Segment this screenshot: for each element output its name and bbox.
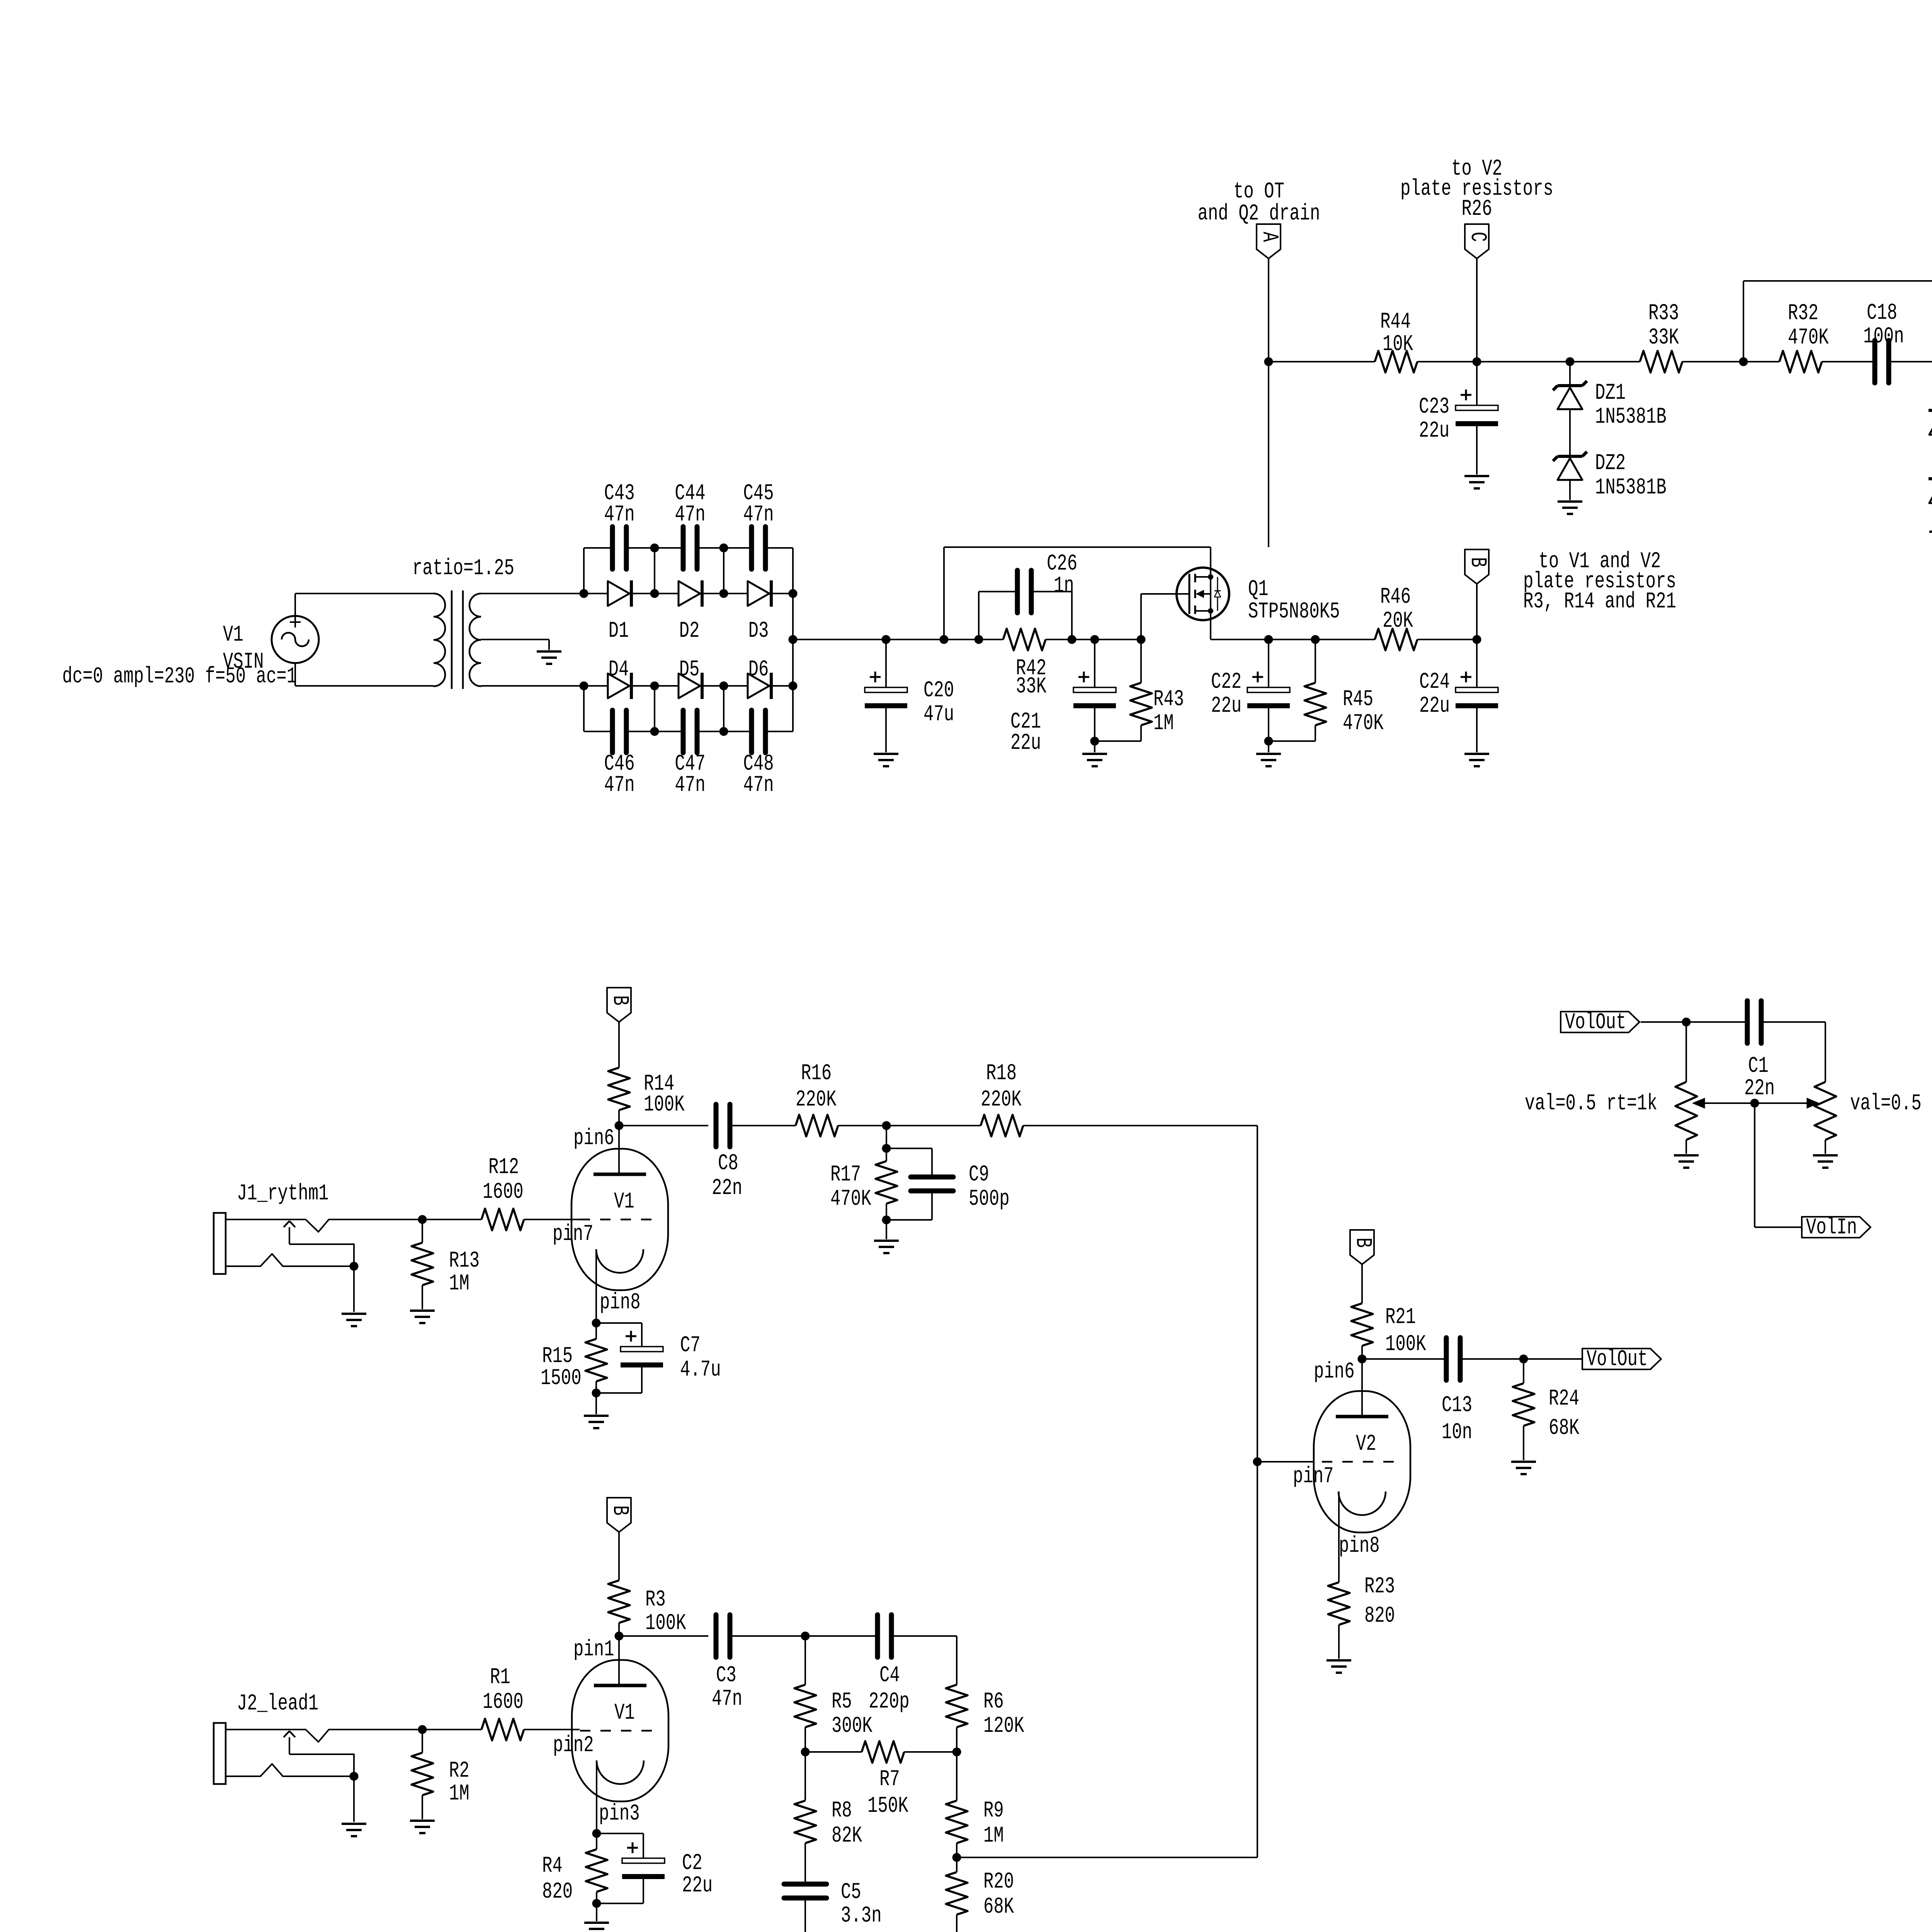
- note to V1 V2 plate resistors: [1523, 549, 1676, 614]
- resistor R44 10K: [1375, 310, 1477, 372]
- wire Q1 source: [1211, 611, 1269, 639]
- wire anode: [618, 1636, 620, 1685]
- svg-text:R16: R16: [801, 1061, 832, 1086]
- svg-text:R32: R32: [1788, 301, 1818, 326]
- svg-text:D6: D6: [748, 657, 769, 682]
- svg-text:STP5N80K5: STP5N80K5: [1248, 599, 1340, 624]
- wire: [619, 1635, 708, 1637]
- svg-text:B: B: [607, 995, 632, 1005]
- svg-text:DZ1: DZ1: [1595, 381, 1626, 406]
- svg-text:470K: 470K: [1343, 711, 1384, 736]
- ground: [1464, 754, 1489, 766]
- wire cathode: [1338, 1492, 1340, 1582]
- svg-text:D2: D2: [679, 619, 700, 644]
- wire: [1072, 639, 1095, 640]
- ground: [584, 1416, 609, 1428]
- resistor R17 470K: [830, 1148, 897, 1220]
- node junction: [801, 1632, 810, 1641]
- svg-text:pin6: pin6: [1314, 1359, 1355, 1384]
- svg-text:B: B: [1465, 557, 1490, 567]
- wire: [1743, 361, 1779, 362]
- svg-text:pin6: pin6: [573, 1126, 614, 1151]
- wire to Q1 drain: [944, 547, 1211, 577]
- capacitor C20 47u: [865, 639, 954, 752]
- node junction: [882, 1216, 891, 1240]
- zener diode DZ1 1N5381B: [1553, 362, 1667, 430]
- wire: [295, 593, 434, 594]
- svg-text:V1: V1: [614, 1701, 635, 1726]
- wire: [295, 685, 434, 687]
- ground: [1929, 532, 1932, 544]
- svg-text:R5: R5: [832, 1689, 852, 1714]
- ground: [1674, 1155, 1699, 1168]
- resistor R18 220K: [886, 1061, 1257, 1136]
- node junction: [1750, 1099, 1759, 1108]
- wire: [619, 1125, 708, 1126]
- wire: [792, 686, 794, 731]
- net label VolIn: [1802, 1215, 1871, 1240]
- svg-text:220K: 220K: [796, 1087, 837, 1112]
- capacitor C26 1n: [979, 551, 1077, 613]
- capacitor C18 100n: [1863, 301, 1932, 383]
- resistor R4 820: [542, 1833, 607, 1905]
- svg-text:1M: 1M: [1153, 711, 1174, 736]
- svg-text:47n: 47n: [604, 502, 634, 527]
- capacitor C3 47n: [712, 1615, 805, 1712]
- svg-text:val=0.5 rt=1k: val=0.5 rt=1k: [1850, 1091, 1932, 1116]
- svg-text:22u: 22u: [1419, 418, 1449, 444]
- svg-text:pin7: pin7: [553, 1222, 594, 1247]
- node junction: [418, 1725, 427, 1734]
- node junction: [1473, 357, 1481, 366]
- svg-text:R24: R24: [1549, 1386, 1579, 1412]
- wire center tap: [481, 639, 549, 650]
- svg-text:R20: R20: [983, 1869, 1014, 1895]
- svg-text:B: B: [1350, 1238, 1375, 1248]
- svg-text:22u: 22u: [682, 1873, 713, 1898]
- node junction: [650, 686, 659, 736]
- svg-text:C2: C2: [682, 1851, 702, 1876]
- resistor R14 100K: [608, 1022, 685, 1126]
- resistor R12 1600: [422, 1155, 580, 1230]
- triode V2 (mid): [1293, 1359, 1410, 1559]
- node junction: [1566, 357, 1575, 366]
- node B flag: [607, 1498, 632, 1532]
- svg-text:1N5381B: 1N5381B: [1595, 475, 1667, 500]
- svg-text:R45: R45: [1343, 687, 1373, 712]
- capacitor C1 22n: [1686, 1001, 1825, 1101]
- potentiometer val=0.5 rt=1k (left): [1525, 1022, 1697, 1154]
- svg-text:D4: D4: [609, 657, 629, 682]
- node junction: [592, 1899, 601, 1922]
- svg-text:D1: D1: [609, 619, 629, 644]
- node C flag: [1400, 156, 1553, 362]
- diode D3: [724, 580, 793, 644]
- net label VolOut: [1524, 1347, 1661, 1372]
- triode V1 (J1 stage): [553, 1126, 668, 1315]
- capacitor C46 47n: [584, 710, 655, 798]
- diode D6: [724, 657, 793, 699]
- wire: [1269, 639, 1315, 640]
- node junction: [940, 547, 949, 644]
- node junction: [615, 1632, 624, 1641]
- resistor R13 1M: [412, 1219, 480, 1309]
- svg-text:C26: C26: [1047, 551, 1077, 577]
- svg-text:220p: 220p: [869, 1689, 910, 1714]
- svg-text:22u: 22u: [1419, 694, 1450, 719]
- node junction: [592, 1319, 601, 1328]
- node junction: [1068, 592, 1077, 644]
- ground: [1511, 1462, 1536, 1474]
- wiper wire: [1692, 1098, 1819, 1109]
- capacitor C9 500p: [886, 1148, 1010, 1220]
- resistor R7 150K: [805, 1741, 957, 1819]
- node A flag: [1198, 179, 1320, 362]
- svg-text:1M: 1M: [449, 1271, 469, 1296]
- node junction: [1473, 635, 1481, 644]
- capacitor C7 4.7u: [596, 1323, 721, 1393]
- svg-text:R33: R33: [1648, 301, 1679, 326]
- node junction: [418, 1215, 427, 1224]
- capacitor C48 47n: [724, 710, 793, 798]
- svg-text:R17: R17: [830, 1162, 861, 1187]
- wire: [1755, 1103, 1802, 1227]
- svg-text:R1: R1: [490, 1665, 510, 1690]
- node junction: [580, 589, 588, 598]
- svg-text:68K: 68K: [983, 1895, 1014, 1920]
- ground: [1256, 754, 1281, 766]
- svg-text:47n: 47n: [743, 773, 774, 798]
- resistor R43 1M: [1095, 639, 1184, 741]
- node junction: [975, 592, 983, 644]
- svg-text:C18: C18: [1867, 301, 1897, 326]
- svg-text:22u: 22u: [1211, 694, 1242, 719]
- svg-text:R21: R21: [1385, 1305, 1416, 1330]
- transformer T1 ratio=1.25: [412, 556, 584, 689]
- connector J2_lead1 jack: [214, 1691, 422, 1836]
- svg-text:47n: 47n: [675, 502, 705, 527]
- svg-text:500p: 500p: [969, 1187, 1010, 1212]
- svg-text:1600: 1600: [483, 1180, 524, 1205]
- node junction: [615, 1121, 624, 1130]
- svg-text:22n: 22n: [1744, 1076, 1775, 1101]
- node junction: [789, 635, 798, 644]
- svg-text:47n: 47n: [675, 773, 705, 798]
- svg-text:C4: C4: [879, 1663, 900, 1688]
- wire: [886, 639, 944, 640]
- wire: [583, 686, 585, 731]
- diode D8: [1929, 362, 1932, 435]
- node junction: [1519, 1355, 1528, 1364]
- svg-text:R26: R26: [1461, 197, 1492, 222]
- svg-text:1N5381B: 1N5381B: [1595, 405, 1667, 430]
- resistor R23 820: [1328, 1574, 1395, 1659]
- wire: [1570, 361, 1640, 362]
- capacitor C4 220p: [805, 1615, 957, 1714]
- svg-text:V1: V1: [614, 1189, 634, 1214]
- svg-text:C20: C20: [923, 678, 954, 703]
- wire: [944, 639, 979, 640]
- wire: [792, 594, 794, 686]
- svg-text:C22: C22: [1211, 670, 1242, 695]
- svg-text:and Q2 drain: and Q2 drain: [1198, 201, 1320, 226]
- svg-text:47n: 47n: [712, 1687, 742, 1712]
- capacitor C44 47n: [655, 481, 724, 569]
- svg-text:V2: V2: [1356, 1432, 1376, 1457]
- svg-text:R23: R23: [1364, 1574, 1395, 1599]
- wire grid: [1257, 1461, 1314, 1463]
- svg-text:pin3: pin3: [599, 1801, 640, 1827]
- node junction: [1311, 635, 1320, 644]
- resistor R21 100K: [1351, 1264, 1426, 1359]
- svg-text:1500: 1500: [541, 1366, 582, 1391]
- svg-text:R43: R43: [1153, 687, 1184, 712]
- node junction: [882, 1121, 891, 1149]
- svg-text:val=0.5 rt=1k: val=0.5 rt=1k: [1525, 1091, 1657, 1116]
- ground: [874, 1241, 899, 1253]
- svg-text:VolOut: VolOut: [1587, 1347, 1648, 1372]
- wire: [1095, 639, 1141, 640]
- wire: [792, 548, 794, 594]
- svg-text:47u: 47u: [923, 702, 954, 727]
- svg-text:82K: 82K: [832, 1823, 862, 1849]
- svg-text:100n: 100n: [1863, 324, 1904, 349]
- resistor R1 1600: [422, 1665, 580, 1740]
- svg-text:120K: 120K: [983, 1714, 1024, 1739]
- svg-text:C24: C24: [1419, 670, 1450, 695]
- resistor R2 1M: [412, 1730, 469, 1819]
- svg-text:pin1: pin1: [573, 1637, 614, 1662]
- node junction: [789, 589, 798, 598]
- node junction: [1253, 1458, 1262, 1466]
- capacitor C43 47n: [584, 481, 655, 569]
- svg-text:100K: 100K: [644, 1092, 685, 1117]
- ground: [1327, 1660, 1351, 1673]
- svg-text:DZ2: DZ2: [1595, 451, 1626, 476]
- wire Q2 gate: [1743, 280, 1932, 282]
- svg-text:R3, R14 and R21: R3, R14 and R21: [1523, 589, 1676, 614]
- svg-text:100K: 100K: [1385, 1332, 1426, 1357]
- svg-text:33K: 33K: [1648, 325, 1679, 350]
- svg-text:470K: 470K: [1788, 325, 1829, 350]
- capacitor C2 22u: [597, 1833, 713, 1903]
- svg-text:R13: R13: [449, 1248, 480, 1274]
- wire: [1257, 1126, 1258, 1462]
- svg-text:C23: C23: [1419, 395, 1449, 420]
- svg-text:R2: R2: [449, 1759, 469, 1784]
- svg-text:4.7u: 4.7u: [680, 1357, 721, 1383]
- svg-text:D3: D3: [748, 619, 769, 644]
- resistor R24 68K: [1513, 1359, 1579, 1460]
- svg-text:10K: 10K: [1383, 332, 1413, 357]
- voltage source V1 VSIN: [62, 594, 319, 689]
- svg-text:47n: 47n: [604, 773, 634, 798]
- svg-text:R9: R9: [983, 1798, 1004, 1823]
- svg-text:68K: 68K: [1549, 1416, 1579, 1441]
- zener diode DZ2 1N5381B: [1553, 409, 1667, 500]
- svg-text:1n: 1n: [1054, 573, 1074, 599]
- node junction: [789, 682, 798, 690]
- svg-text:R12: R12: [488, 1155, 519, 1180]
- svg-text:20K: 20K: [1383, 609, 1413, 634]
- capacitor C23 22u: [1419, 362, 1498, 474]
- node junction: [650, 682, 659, 690]
- svg-text:820: 820: [542, 1879, 573, 1905]
- svg-text:10n: 10n: [1442, 1420, 1472, 1445]
- node junction: [1264, 737, 1273, 753]
- node junction: [952, 1853, 961, 1862]
- svg-text:1M: 1M: [983, 1823, 1004, 1849]
- svg-text:C5: C5: [841, 1880, 861, 1905]
- resistor R8 82K: [794, 1752, 862, 1884]
- svg-text:R44: R44: [1380, 310, 1411, 335]
- svg-text:A: A: [1257, 232, 1282, 242]
- svg-text:33K: 33K: [1016, 674, 1046, 699]
- resistor R32 470K: [1779, 301, 1874, 372]
- resistor R16 220K: [796, 1061, 886, 1136]
- node junction: [1682, 1018, 1691, 1027]
- wire anode: [1361, 1359, 1363, 1417]
- capacitor C47 47n: [655, 710, 724, 798]
- svg-text:J2_lead1: J2_lead1: [237, 1691, 318, 1716]
- diode D1: [584, 580, 655, 644]
- resistor R5 300K: [794, 1636, 872, 1752]
- svg-text:pin7: pin7: [1293, 1464, 1334, 1489]
- node junction: [1739, 281, 1748, 366]
- wire: [793, 639, 886, 640]
- resistor R45 470K: [1269, 639, 1384, 741]
- svg-text:R7: R7: [879, 1767, 900, 1792]
- svg-text:3.3n: 3.3n: [841, 1903, 882, 1929]
- capacitor C5 3.3n: [784, 1880, 882, 1932]
- wire Q1 gate: [1141, 593, 1189, 595]
- node junction: [650, 544, 659, 594]
- ground: [1082, 754, 1107, 766]
- resistor R46 20K: [1375, 585, 1477, 650]
- svg-text:C8: C8: [718, 1151, 738, 1176]
- triode V1 (J2 stage): [553, 1637, 668, 1827]
- resistor R33 33K: [1640, 301, 1743, 372]
- node junction: [592, 1829, 601, 1838]
- svg-text:J1_rythm1: J1_rythm1: [237, 1181, 329, 1206]
- capacitor C21 22u: [1010, 639, 1116, 756]
- ground: [410, 1821, 435, 1833]
- capacitor C45 47n: [724, 481, 793, 569]
- svg-text:to OT: to OT: [1233, 179, 1284, 204]
- capacitor C8 22n: [712, 1104, 796, 1201]
- potentiometer val=0.5 rt=1k (right): [1815, 1022, 1932, 1154]
- node B flag: [1465, 549, 1490, 639]
- svg-text:R46: R46: [1380, 585, 1411, 610]
- node junction: [1137, 594, 1146, 644]
- node junction: [882, 1144, 891, 1153]
- ground: [1464, 476, 1489, 488]
- svg-text:C3: C3: [716, 1663, 736, 1688]
- svg-text:R6: R6: [983, 1689, 1004, 1714]
- node junction: [952, 1748, 961, 1757]
- diode D5: [655, 657, 724, 699]
- wire: [1269, 361, 1375, 362]
- svg-text:220K: 220K: [981, 1087, 1022, 1112]
- node junction: [801, 1748, 810, 1757]
- resistor R6 120K: [946, 1636, 1024, 1752]
- svg-text:22n: 22n: [712, 1176, 742, 1201]
- svg-text:470K: 470K: [830, 1187, 871, 1212]
- resistor R3 100K: [608, 1532, 686, 1636]
- svg-text:ratio=1.25: ratio=1.25: [412, 556, 514, 581]
- ground: [874, 754, 898, 766]
- svg-text:47n: 47n: [743, 502, 774, 527]
- wire: [957, 1462, 1257, 1857]
- node junction: [882, 635, 891, 644]
- svg-text:VolOut: VolOut: [1565, 1010, 1626, 1035]
- svg-text:R8: R8: [832, 1798, 852, 1823]
- node junction: [1358, 1355, 1367, 1364]
- ground: [1813, 1155, 1838, 1168]
- svg-text:22u: 22u: [1010, 731, 1041, 756]
- node junction: [719, 544, 728, 594]
- resistor R15 1500: [541, 1323, 607, 1393]
- ground: [410, 1311, 435, 1323]
- node junction: [580, 682, 588, 690]
- transistor Q1 STP5N80K5: [1177, 568, 1340, 624]
- resistor R20 68K: [946, 1857, 1014, 1932]
- wire: [1477, 361, 1570, 362]
- svg-text:R18: R18: [986, 1061, 1017, 1086]
- svg-text:D5: D5: [679, 657, 700, 682]
- svg-text:150K: 150K: [867, 1794, 908, 1819]
- wire: [1315, 639, 1375, 640]
- wire cathode: [596, 1760, 597, 1833]
- svg-text:pin8: pin8: [1339, 1534, 1380, 1559]
- node junction: [592, 1389, 601, 1415]
- node junction: [650, 589, 659, 598]
- svg-text:C7: C7: [680, 1333, 701, 1358]
- capacitor C13 10n: [1362, 1338, 1524, 1445]
- ground: [537, 651, 561, 664]
- node junction: [1264, 635, 1273, 644]
- svg-text:R4: R4: [542, 1854, 563, 1879]
- net label VolOut: [1561, 1010, 1686, 1035]
- svg-text:C: C: [1465, 232, 1490, 242]
- capacitor C22 22u: [1211, 639, 1290, 741]
- node B flag: [1350, 1230, 1375, 1264]
- node junction: [719, 682, 728, 690]
- svg-text:820: 820: [1364, 1604, 1395, 1629]
- diode D2: [655, 580, 724, 644]
- node junction: [719, 589, 728, 598]
- svg-text:R3: R3: [645, 1587, 666, 1612]
- svg-text:1600: 1600: [483, 1690, 524, 1715]
- resistor R9 1M: [946, 1752, 1004, 1857]
- svg-text:100K: 100K: [645, 1611, 686, 1636]
- wire cathode: [595, 1249, 597, 1323]
- svg-text:Q1: Q1: [1248, 577, 1269, 602]
- node junction: [1090, 635, 1099, 644]
- node junction: [1090, 737, 1099, 753]
- svg-text:V1: V1: [223, 622, 243, 648]
- wire anode: [618, 1126, 620, 1174]
- svg-text:VolIn: VolIn: [1806, 1215, 1857, 1240]
- resistor R42 33K: [979, 629, 1072, 699]
- ground: [584, 1923, 609, 1932]
- node junction: [1264, 357, 1273, 548]
- svg-text:R15: R15: [542, 1344, 573, 1369]
- diode D9: [1929, 435, 1932, 530]
- svg-text:1M: 1M: [449, 1781, 469, 1806]
- svg-text:pin2: pin2: [553, 1733, 594, 1758]
- svg-text:B: B: [607, 1505, 632, 1515]
